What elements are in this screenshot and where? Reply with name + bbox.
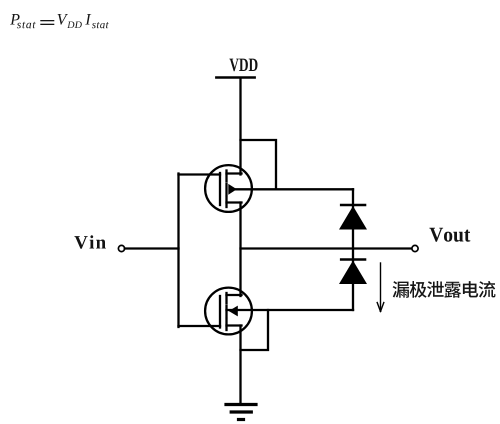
wire diode column bbox=[352, 189, 354, 310]
wire mid column between transistors bbox=[239, 203, 241, 297]
Vout label bbox=[429, 228, 470, 242]
wire VDD stem bbox=[239, 78, 241, 175]
wire M2 body line to diode column bbox=[227, 309, 354, 311]
VDD supply bar bbox=[216, 76, 254, 79]
wire M1 body line to diode column bbox=[236, 188, 353, 190]
node Vout terminal bbox=[412, 245, 418, 251]
wire ground stem bbox=[239, 326, 241, 405]
wire body-to-ground loop bbox=[241, 310, 269, 350]
diode D1 bbox=[339, 205, 367, 230]
wire Vout line bbox=[241, 247, 412, 249]
transistor M2 (NMOS) bbox=[205, 288, 252, 335]
Vin label bbox=[74, 235, 106, 249]
transistor M1 (PMOS) bbox=[205, 165, 252, 212]
wire M1 gate lead bbox=[179, 173, 221, 175]
label 漏极泄露电流 (drain leakage current) bbox=[393, 281, 496, 298]
node Vin terminal bbox=[118, 245, 124, 251]
wire gate column bbox=[177, 174, 179, 328]
diode D2 bbox=[339, 260, 367, 285]
wire body-to-VDD loop bbox=[241, 140, 277, 189]
leakage current arrow bbox=[377, 263, 384, 312]
formula P_stat = V_DD I_stat bbox=[10, 14, 109, 28]
VDD label bbox=[229, 59, 257, 72]
ground bbox=[226, 405, 256, 420]
wire Vin lead bbox=[125, 247, 179, 249]
wire M2 gate lead bbox=[179, 325, 221, 327]
